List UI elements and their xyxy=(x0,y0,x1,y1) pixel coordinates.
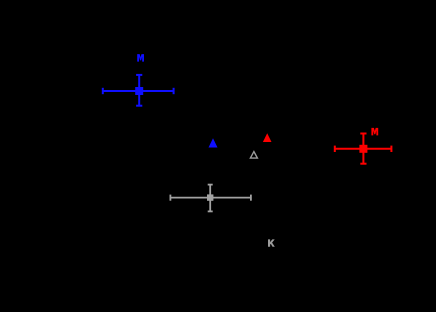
blue data point square marker xyxy=(135,87,143,95)
blue data point error bars xyxy=(103,75,174,106)
red data point square marker xyxy=(359,145,367,153)
gray open triangle marker xyxy=(250,152,257,159)
gray data point error bars xyxy=(170,185,251,212)
red data point error bars xyxy=(335,134,392,164)
blue label M xyxy=(137,54,144,62)
gray label K xyxy=(268,239,275,246)
red label M xyxy=(371,128,378,135)
blue filled triangle marker xyxy=(209,138,218,147)
red filled triangle marker xyxy=(263,133,272,142)
gray data point square marker xyxy=(207,194,213,200)
